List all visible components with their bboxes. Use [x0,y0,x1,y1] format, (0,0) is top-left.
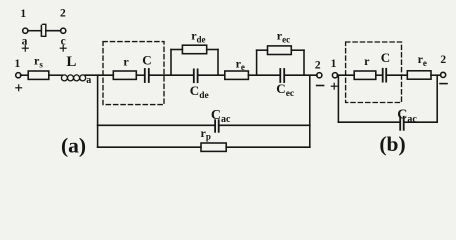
wire ec-section top branch right [291,49,304,51]
dashed box around r and C (a) [103,42,164,105]
svg-text:a: a [22,35,28,47]
wire rs to L [49,74,62,76]
inductor L loop 1 [61,75,67,81]
capacitor Cde right plate [197,69,199,82]
wire right tap down to loops [309,75,311,147]
svg-text:r: r [364,54,370,68]
wire de-section left riser [170,50,172,76]
svg-text:Cac: Cac [211,108,231,125]
capacitor Cac (b) left plate [399,117,401,130]
capacitor Cec left plate [279,69,281,82]
crystal X1 terminal 2 [61,28,66,33]
resistor r (b) [354,71,376,79]
terminal 2 of circuit (b) [441,72,446,77]
svg-text:(b): (b) [379,132,405,156]
svg-text:L: L [66,54,76,70]
polarity minus terminal 2 (b) [440,83,447,85]
terminal 1 of circuit (a) [16,73,21,78]
wire ec-section right riser [303,50,305,75]
svg-text:rs: rs [34,54,43,70]
svg-text:2: 2 [60,7,66,19]
wire rp loop left segment [98,146,201,148]
svg-text:1: 1 [20,8,26,20]
wire C to re (b) [387,74,408,76]
wire b loop bottom left segment [338,121,399,123]
svg-text:r: r [123,55,129,69]
capacitor Cde left plate [193,69,195,82]
wire ec-section left riser [256,50,258,75]
polarity + terminal 1 (b) [331,83,337,89]
dashed box around r and C (b) [346,42,402,103]
wire terminal1 to rs [21,74,29,76]
svg-text:1: 1 [331,58,337,70]
svg-text:Cde: Cde [190,83,209,101]
wire Cac loop right segment [219,124,310,126]
resistor rs [28,71,49,79]
terminal 1 of circuit (b) [332,73,337,78]
wire crystal right [46,30,61,32]
svg-text:rde: rde [191,29,205,45]
wire re to Cec [248,74,279,76]
resistor rp [201,143,226,151]
wire re to terminal 2 (b) [431,74,441,76]
wire b loop right riser [436,75,438,122]
wire crystal left [28,30,41,32]
wire Cac loop left segment [98,124,216,126]
resistor re (a) [225,71,249,79]
wire Cde to re [198,74,225,76]
crystal X1 terminal 1 [23,28,28,33]
wire de-section top branch right [207,49,218,51]
crystal X1 body [43,24,46,36]
wire de-section top branch left [171,49,182,51]
capacitor C (b) right plate [385,69,387,82]
svg-text:a: a [86,75,91,86]
resistor rec [268,46,292,55]
inductor L loop 2 [68,75,74,81]
crystal X1 polarity + (left) [22,45,28,51]
polarity + terminal 1 (a) [16,85,22,91]
svg-text:(a): (a) [61,134,86,158]
capacitor Cec right plate [283,69,285,82]
resistor re (b) [407,71,431,79]
capacitor Cac (a) left plate [214,120,216,132]
wire junction b down to loop [337,75,339,122]
capacitor C (b) left plate [382,69,384,82]
svg-text:2: 2 [440,54,446,66]
wire C to Cde [149,74,193,76]
svg-text:re: re [236,56,245,72]
svg-text:C: C [381,50,390,65]
polarity minus terminal 2 (a) [317,85,324,87]
resistor rde [182,45,206,54]
wire junction a down to feedback loops [97,75,99,147]
wire de-section right riser [217,50,219,76]
svg-text:Cec: Cec [276,81,294,99]
crystal X1 left plate [40,25,42,36]
resistor r (a) [113,71,136,79]
wire terminal1b to r [337,74,354,76]
inductor L loop 3 [74,75,80,81]
svg-text:rec: rec [277,28,290,44]
wire ec-section top branch left [257,49,268,51]
terminal 2 of circuit (a) [317,73,322,78]
wire Cec to terminal 2 (a) [285,74,317,76]
capacitor C (a) left plate [144,69,146,82]
svg-text:2: 2 [315,60,321,72]
svg-text:re: re [418,52,427,68]
capacitor Cac (b) right plate [403,117,405,130]
svg-text:rp: rp [201,126,211,142]
crystal X1 polarity + (right) [60,45,66,51]
wire b loop bottom right segment [404,121,437,123]
wire r to C (a) [136,74,144,76]
wire r to C (b) [376,74,382,76]
capacitor Cac (a) right plate [218,120,220,132]
wire rp loop right segment [226,146,310,148]
svg-text:1: 1 [15,58,21,70]
svg-text:C: C [142,53,151,68]
wire L to node a junction [85,74,113,76]
inductor L loop 4 [80,75,86,81]
capacitor C (a) right plate [148,69,150,82]
